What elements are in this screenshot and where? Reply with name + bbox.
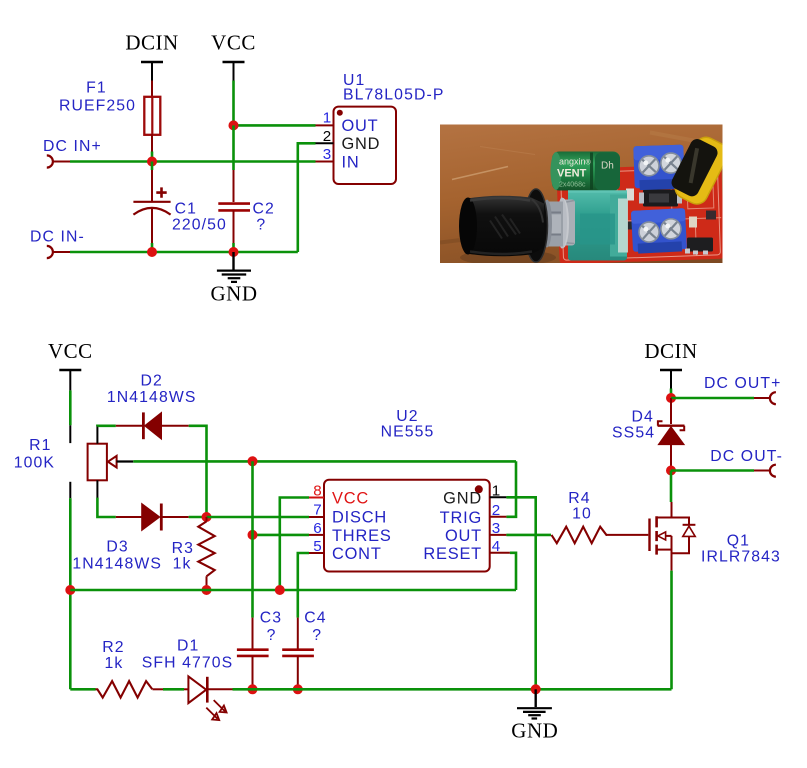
svg-text:C1: C1 (175, 201, 197, 218)
svg-text:?: ? (256, 217, 266, 234)
fuse F1 (144, 97, 160, 135)
svg-text:Q1: Q1 (727, 533, 750, 550)
svg-text:?: ? (267, 627, 277, 644)
wire VCC node down to C2 (232, 125, 235, 170)
svg-text:R1: R1 (29, 437, 51, 454)
connector DC IN- (47, 246, 53, 258)
svg-text:R3: R3 (172, 540, 194, 557)
svg-text:3: 3 (323, 146, 332, 163)
pin 2 stub U1 (316, 142, 334, 144)
wire VCC left rail down (69, 498, 72, 689)
node DISCH junction (202, 512, 212, 522)
connector DC IN+ (47, 155, 53, 167)
node DC IN+ / F1 / C1 junction (147, 157, 157, 167)
svg-text:SS54: SS54 (612, 425, 655, 442)
svg-text:1k: 1k (105, 655, 124, 672)
diode D4 SS54 (schottky) (658, 421, 685, 470)
svg-text:GND: GND (511, 719, 558, 743)
svg-text:D3: D3 (106, 539, 128, 556)
wire D2 to right vertical (189, 426, 207, 517)
wire VCC horizontal rail (70, 589, 516, 592)
svg-text:2x4068c: 2x4068c (559, 182, 586, 189)
wire TRIG drop to U2 pin2 (506, 461, 516, 517)
node THRES / C3 junction (248, 530, 258, 540)
wire GND rail right (536, 688, 672, 691)
svg-text:?: ? (312, 627, 322, 644)
svg-text:2: 2 (492, 502, 501, 519)
svg-text:U2: U2 (396, 408, 418, 425)
svg-text:DC OUT+: DC OUT+ (704, 375, 781, 392)
svg-text:10: 10 (572, 506, 592, 523)
svg-text:VCC: VCC (211, 31, 256, 55)
svg-text:R2: R2 (102, 639, 124, 656)
metal bushing and nut (542, 198, 575, 249)
node C2 / GND junction (229, 247, 239, 257)
diode D3 1N4148WS (116, 504, 189, 531)
capacitor C3 (237, 618, 269, 690)
svg-text:DC OUT-: DC OUT- (710, 448, 783, 465)
svg-text:D2: D2 (140, 373, 162, 390)
svg-text:1N4148WS: 1N4148WS (72, 556, 162, 573)
wire U2 pin4 to VCC rail (510, 553, 516, 590)
black knob (459, 189, 556, 266)
power flag VCC (top) (211, 31, 256, 81)
svg-text:GND: GND (342, 135, 381, 153)
wire DC OUT- (671, 469, 754, 472)
node pin8 rail junction (275, 585, 285, 595)
SMD chip (643, 190, 678, 207)
teal potentiometer body (568, 191, 628, 261)
svg-text:C3: C3 (260, 610, 282, 627)
svg-text:1k: 1k (173, 556, 192, 573)
wire node to C1 (151, 162, 153, 202)
svg-text:VCC: VCC (48, 339, 93, 363)
svg-text:220/50: 220/50 (172, 217, 227, 234)
svg-text:8: 8 (313, 483, 322, 500)
svg-text:IRLR7843: IRLR7843 (701, 549, 781, 566)
node DC OUT+ junction (666, 393, 676, 403)
capacitor C4 (282, 618, 314, 690)
svg-text:3: 3 (492, 520, 501, 537)
transistor Q1 IRLR7843 (650, 516, 696, 570)
power flag DCIN (bottom-right) (644, 339, 697, 389)
pin 1 stub U1 (316, 124, 334, 126)
svg-text:DISCH: DISCH (332, 509, 387, 527)
wire DC OUT+ (671, 397, 754, 400)
node wiper / C3 junction (248, 456, 258, 466)
wire DC IN- rail (70, 251, 298, 254)
LED D1 SFH 4770S (188, 676, 232, 720)
wire U2 pin3 to R4 (506, 534, 551, 537)
pin 3 stub U2 (490, 534, 507, 536)
resistor R4 10 (552, 527, 608, 544)
wire R1 wiper to TRIG rail (133, 460, 516, 463)
node VCC rail junction (65, 585, 75, 595)
wire DC IN- rail up to U1 pin2 (298, 143, 316, 252)
svg-text:DC IN+: DC IN+ (43, 138, 102, 155)
svg-text:VCC: VCC (332, 490, 369, 508)
svg-text:1: 1 (492, 482, 501, 499)
pin lead DC IN- (53, 251, 70, 253)
svg-text:RUEF250: RUEF250 (59, 98, 136, 115)
svg-text:GND: GND (211, 282, 258, 306)
svg-text:100K: 100K (14, 455, 55, 472)
svg-text:TRIG: TRIG (440, 509, 482, 527)
svg-text:DC IN-: DC IN- (30, 229, 85, 246)
svg-text:D4: D4 (631, 409, 653, 426)
node C1 / DC IN- junction (147, 247, 157, 257)
blue terminal block bottom (631, 208, 687, 254)
svg-text:BL78L05D-P: BL78L05D-P (343, 87, 444, 104)
svg-text:DCIN: DCIN (644, 339, 697, 363)
svg-text:SFH 4770S: SFH 4770S (142, 655, 234, 672)
wire DCIN to F1 (151, 81, 153, 98)
green electrolytic capacitor (551, 152, 621, 191)
wire R4 to Q1 gate (607, 534, 648, 536)
wire C1 to DC IN- rail (151, 209, 153, 243)
pin lead DC OUT+ (754, 397, 770, 399)
svg-text:RESET: RESET (423, 545, 482, 563)
svg-text:1N4148WS: 1N4148WS (107, 389, 197, 406)
svg-text:5: 5 (313, 538, 322, 555)
pin 2 stub U2 (490, 516, 507, 518)
wire DISCH node to U2 pin7 (207, 516, 310, 519)
node R3 / VCC rail junction (202, 585, 212, 595)
svg-text:THRES: THRES (332, 527, 392, 545)
wire D4 to Q1 drain (670, 471, 673, 503)
svg-text:F1: F1 (86, 80, 107, 97)
wire DC IN+ to U1 pin3 (70, 160, 316, 163)
wire D1 to GND rail (233, 688, 536, 691)
resistor R2 1k (96, 681, 153, 698)
svg-text:CONT: CONT (332, 545, 382, 563)
ground symbol GND (top) (211, 252, 258, 306)
svg-text:Dh: Dh (601, 161, 614, 172)
op-amp U1 regulator BL78L05D-P body (334, 107, 397, 184)
wire U2 pin8 to VCC rail (280, 498, 309, 591)
wire C2 to ground rail (233, 210, 235, 243)
svg-text:D1: D1 (177, 638, 199, 655)
pin 7 stub U2 (309, 516, 324, 518)
svg-text:7: 7 (313, 502, 322, 519)
diode D2 1N4148WS (116, 412, 189, 439)
svg-text:GND: GND (443, 490, 482, 508)
pin lead DC OUT- (754, 470, 770, 472)
wire node to D4 (670, 398, 672, 424)
timer U2 NE555 body (324, 480, 490, 572)
pin 6 stub U2 (309, 534, 324, 536)
potentiometer R1 pin3 stub (69, 482, 71, 498)
svg-text:2: 2 (323, 128, 332, 145)
wire VCC node to U1 pin1 (234, 124, 316, 127)
wire R1 bottom to D3 (97, 498, 115, 517)
small passives (626, 189, 634, 201)
node C4 bottom junction (293, 684, 303, 694)
svg-text:C2: C2 (253, 201, 275, 218)
svg-text:IN: IN (342, 153, 360, 171)
svg-text:DCIN: DCIN (125, 31, 178, 55)
svg-text:6: 6 (313, 520, 322, 537)
svg-text:4: 4 (492, 538, 501, 555)
node C3 bottom junction (248, 684, 258, 694)
pin 5 stub U2 (309, 552, 324, 554)
wire bottom rail left (70, 688, 95, 691)
capacitor C1 (polarized) (133, 187, 170, 214)
svg-text:1: 1 (323, 109, 332, 126)
resistor R3 1k (198, 517, 214, 590)
connector DC OUT+ (770, 392, 776, 404)
pin 1 stub U2 (490, 496, 507, 498)
svg-text:R4: R4 (568, 490, 590, 507)
blue terminal block top (633, 145, 685, 191)
wire F1 to DC IN+ node (151, 134, 153, 152)
node VCC junction (229, 120, 239, 130)
wire VCC down to node (232, 81, 235, 126)
power flag DCIN (top) (125, 31, 178, 81)
ground symbol GND (bottom) (511, 689, 558, 742)
pin lead DC IN+ (53, 161, 70, 163)
svg-text:C4: C4 (304, 610, 326, 627)
power flag VCC (bottom-left) (48, 339, 93, 390)
wire D3 to DISCH node (189, 516, 207, 519)
red PCB (556, 164, 724, 265)
pin 8 stub U2 (309, 497, 324, 499)
yellow LED / part (667, 131, 732, 208)
wire U2 pin6 to C3 line (253, 534, 310, 537)
svg-text:OUT: OUT (445, 527, 482, 545)
svg-text:OUT: OUT (342, 117, 379, 135)
wire U2 pin1 to GND (506, 497, 535, 689)
potentiometer R1 pin1 stub (69, 425, 71, 443)
wire DCIN to node (670, 389, 673, 399)
connector DC OUT- (770, 465, 776, 477)
pin 4 stub U2 (490, 552, 510, 554)
pin 3 stub U1 (316, 161, 334, 163)
wire U2 pin5 to C4 (298, 553, 309, 618)
potentiometer R1 body (88, 426, 134, 498)
svg-text:NE555: NE555 (381, 424, 435, 441)
node GND junction (531, 684, 541, 694)
node DC OUT- junction (666, 466, 676, 476)
svg-text:VENT: VENT (557, 168, 587, 180)
wire R1 top to D2 (97, 424, 115, 427)
wire R2 to D1 (153, 688, 164, 690)
wire Q1 source to GND rail (670, 571, 673, 690)
wire VCC down to R1 (69, 390, 72, 425)
small SMD transistor bottom-right (687, 238, 713, 252)
capacitor C2 (218, 204, 250, 211)
wire C3 vertical (251, 461, 254, 617)
